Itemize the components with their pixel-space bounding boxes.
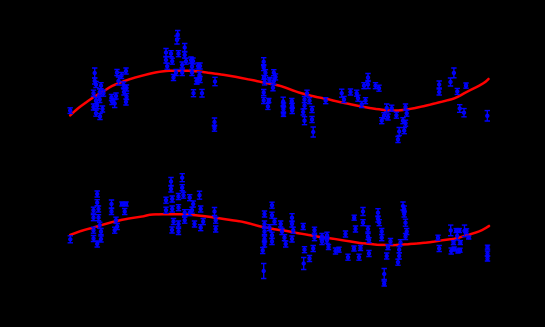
bottom panel fitted model curve (red) bbox=[70, 214, 489, 245]
top panel data pt-x215 bbox=[212, 77, 218, 131]
top panel fitted model curve (red) bbox=[70, 71, 488, 116]
bottom panel data cluster-b-x268 bbox=[260, 202, 277, 278]
bottom panel data cluster-b-x320 bbox=[312, 227, 331, 249]
bottom panel data pt-left-single-b bbox=[68, 236, 73, 243]
bottom panel data cluster-b-x285 bbox=[278, 214, 296, 247]
top panel data pt-right-col bbox=[485, 111, 490, 121]
bottom panel data pt-b-x438 bbox=[435, 235, 442, 251]
top panel data cluster-x120 bbox=[112, 68, 129, 108]
bottom panel data cluster-b-x350 bbox=[333, 208, 372, 261]
bottom panel data cluster-b-x97 bbox=[91, 191, 104, 247]
top panel data cluster-trough-left bbox=[339, 74, 382, 108]
top panel data cluster-x286 bbox=[281, 97, 295, 116]
bottom panel data cluster-b-x114 bbox=[109, 200, 129, 233]
top panel data cluster-x450 bbox=[437, 68, 469, 117]
bottom panel data cluster-b-x458 bbox=[448, 225, 471, 254]
bottom panel data cluster-b-x308 bbox=[301, 224, 316, 270]
bottom panel data pt-b-right-col bbox=[485, 245, 490, 261]
top panel data cluster-x395 bbox=[379, 104, 409, 143]
bottom panel data cluster-b-x403 bbox=[395, 202, 409, 265]
bottom panel data cluster-b-x383 bbox=[375, 209, 393, 286]
top panel data pt-left-single bbox=[68, 108, 73, 114]
bottom panel data cluster-b-peak bbox=[163, 174, 206, 235]
top panel data cluster-x95 bbox=[91, 68, 115, 120]
top panel data cluster-peak bbox=[163, 31, 202, 85]
top panel data cluster-x308 bbox=[301, 90, 316, 137]
top panel data pt-x195lo bbox=[191, 89, 205, 97]
bottom panel data pt-b-x215 bbox=[212, 208, 219, 233]
top panel data pt-x325 bbox=[323, 98, 328, 104]
top panel data cluster-x270 bbox=[261, 58, 278, 110]
